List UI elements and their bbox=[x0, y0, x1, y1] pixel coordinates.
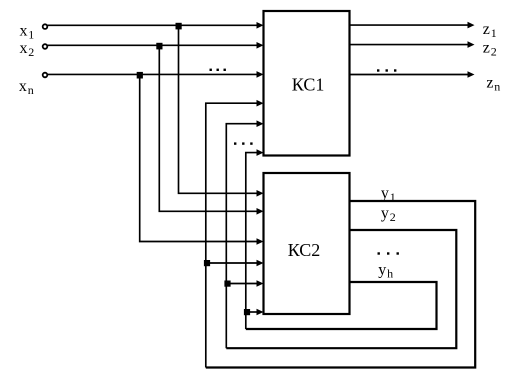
junction node on x2 wire bbox=[156, 43, 162, 50]
arrow z2 bbox=[468, 41, 475, 48]
svg-text:x2: x2 bbox=[20, 40, 35, 59]
arrow into KC1 pin 5 bbox=[257, 120, 264, 127]
wire x1 to KC1 bbox=[48, 24, 258, 26]
svg-text:yh: yh bbox=[378, 261, 393, 280]
branch wire V1 to KC2 bbox=[206, 262, 257, 264]
ellipsis between x2 and xn wires bbox=[210, 69, 226, 71]
branch wire V2 to KC2 bbox=[226, 283, 257, 285]
arrow into KC2 pin 3 bbox=[257, 238, 264, 245]
arrow into KC1 pin 3 bbox=[257, 71, 264, 78]
svg-text:КС2: КС2 bbox=[288, 240, 321, 260]
input terminal circle x1 bbox=[43, 24, 48, 29]
ellipsis between z2 and zn wires bbox=[377, 69, 396, 71]
wire z1 output bbox=[351, 24, 469, 26]
svg-text:КС1: КС1 bbox=[292, 74, 325, 94]
wire z2 output bbox=[351, 44, 469, 46]
feedback loop yh bbox=[246, 282, 437, 329]
block KC1 bbox=[264, 11, 350, 156]
ellipsis between y2 and yh labels bbox=[378, 252, 399, 254]
arrow into KC1 pin 2 bbox=[257, 42, 264, 49]
feedback loop y2 bbox=[226, 230, 456, 348]
arrow into KC2 pin 1 bbox=[257, 190, 264, 197]
arrow z1 bbox=[468, 22, 475, 29]
junction node on xn wire bbox=[137, 72, 143, 79]
wire x2 to KC1 bbox=[48, 44, 258, 46]
svg-text:zn: zn bbox=[486, 74, 500, 93]
junction node on V3 bbox=[244, 309, 250, 315]
block KC2 bbox=[264, 173, 350, 314]
junction node on V2 bbox=[224, 281, 230, 287]
wire xn to KC1 bbox=[48, 73, 258, 75]
branch wire V3 to KC2 bbox=[246, 311, 257, 313]
arrow into KC1 pin 1 bbox=[257, 22, 264, 29]
feedback loop y1 bbox=[206, 201, 475, 368]
arrow into KC2 pin 4 bbox=[257, 260, 264, 267]
svg-text:z1: z1 bbox=[483, 21, 497, 40]
svg-text:z2: z2 bbox=[483, 39, 497, 58]
arrow into KC2 pin 6 bbox=[257, 309, 264, 316]
wire tap x1 down to KC2 bbox=[179, 25, 258, 193]
arrow into KC2 pin 2 bbox=[257, 208, 264, 215]
svg-text:x1: x1 bbox=[20, 22, 35, 41]
arrow into KC1 pin 4 bbox=[257, 100, 264, 107]
svg-text:y2: y2 bbox=[381, 205, 396, 224]
svg-text:xn: xn bbox=[19, 78, 34, 97]
arrow into KC1 pin 6 bbox=[257, 149, 264, 156]
junction node on x1 wire bbox=[176, 23, 182, 30]
feedback vertical wire V2 bbox=[226, 124, 257, 349]
feedback vertical wire V3 bbox=[246, 153, 257, 329]
wire tap xn down to KC2 bbox=[140, 74, 257, 241]
input terminal circle xn bbox=[43, 73, 48, 78]
junction node on V1 bbox=[204, 260, 210, 266]
wire zn output bbox=[351, 74, 469, 76]
feedback vertical wire V1 bbox=[206, 103, 257, 367]
wire tap x2 down to KC2 bbox=[159, 45, 257, 211]
arrow zn bbox=[468, 71, 475, 78]
ellipsis between KC1 pins 5 and 6 bbox=[234, 142, 253, 144]
input terminal circle x2 bbox=[43, 44, 48, 49]
svg-text:y1: y1 bbox=[381, 185, 396, 204]
arrow into KC2 pin 5 bbox=[257, 280, 264, 287]
